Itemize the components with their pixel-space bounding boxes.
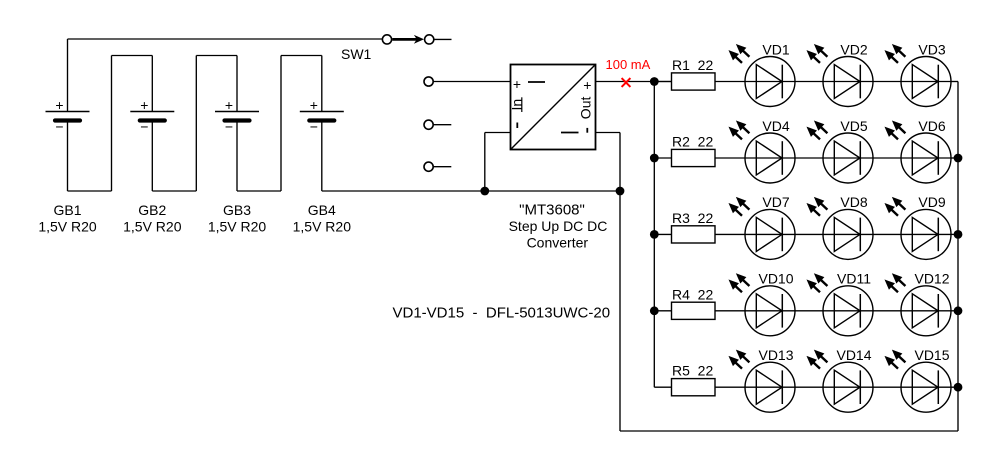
converter - Out internal stub xyxy=(561,132,579,134)
svg-text:GB4: GB4 xyxy=(308,202,336,218)
wire left bus to R4 xyxy=(654,310,671,312)
LED VD5 xyxy=(823,133,873,183)
svg-text:VD1: VD1 xyxy=(762,41,789,57)
LED VD9 xyxy=(901,209,951,259)
wire R5 to VD13 xyxy=(715,386,745,388)
resistor R3 xyxy=(672,226,716,243)
LED VD4 xyxy=(745,133,795,183)
svg-text:Step Up DC DC: Step Up DC DC xyxy=(509,218,608,234)
junction left bus row 4 xyxy=(650,306,659,315)
emission arrows VD11 xyxy=(807,274,827,292)
svg-text:R4 22: R4 22 xyxy=(672,286,713,302)
converter pin - In polarity mark xyxy=(516,123,518,129)
svg-text:SW1: SW1 xyxy=(341,46,372,62)
svg-text:1,5V R20: 1,5V R20 xyxy=(293,219,352,235)
svg-text:−: − xyxy=(140,119,148,135)
svg-text:VD8: VD8 xyxy=(840,194,867,210)
wire VD5 to VD6 xyxy=(873,157,901,159)
junction ground bus at return wire xyxy=(616,187,625,196)
terminal pin unused 2 xyxy=(424,162,451,171)
svg-text:"MT3608": "MT3608" xyxy=(519,201,585,218)
svg-text:R5 22: R5 22 xyxy=(672,363,713,379)
wire VD3 to right bus xyxy=(951,81,958,83)
LED VD3 xyxy=(901,57,951,107)
junction right bus row 4 xyxy=(954,306,963,315)
emission arrows VD1 xyxy=(729,45,749,63)
battery GB3 xyxy=(215,56,259,192)
switch SW1 xyxy=(382,35,433,44)
resistor R5 xyxy=(672,379,716,396)
svg-text:VD2: VD2 xyxy=(840,41,867,57)
junction left bus row 1 xyxy=(650,77,659,86)
wire terminal to converter + In xyxy=(433,81,510,83)
svg-text:VD12: VD12 xyxy=(914,271,949,287)
svg-text:VD9: VD9 xyxy=(918,194,945,210)
wire VD11 to VD12 xyxy=(873,310,901,312)
svg-text:VD4: VD4 xyxy=(762,118,789,134)
emission arrows VD13 xyxy=(729,351,749,369)
resistor R1 xyxy=(672,73,716,90)
svg-text:VD3: VD3 xyxy=(918,41,945,57)
wire LED matrix left bus xyxy=(653,82,655,388)
svg-text:GB3: GB3 xyxy=(223,202,251,218)
junction left bus row 2 xyxy=(650,154,659,163)
svg-text:VD7: VD7 xyxy=(762,194,789,210)
LED VD10 xyxy=(745,286,795,336)
junction left bus row 3 xyxy=(650,230,659,239)
svg-text:1,5V R20: 1,5V R20 xyxy=(123,219,182,235)
svg-text:+: + xyxy=(583,77,591,93)
svg-text:−: − xyxy=(310,119,318,135)
svg-text:R3 22: R3 22 xyxy=(672,210,713,226)
svg-text:Converter: Converter xyxy=(527,234,589,250)
emission arrows VD10 xyxy=(729,274,749,292)
svg-text:+: + xyxy=(225,97,233,113)
battery GB1 xyxy=(46,39,90,191)
converter + In internal stub xyxy=(528,81,545,83)
wire VD7 to VD8 xyxy=(795,233,823,235)
wire return bottom xyxy=(620,82,958,432)
LED VD2 xyxy=(823,57,873,107)
resistor R2 xyxy=(672,149,716,166)
battery GB2 xyxy=(130,56,174,192)
battery GB4 xyxy=(300,56,344,192)
converter pin - Out polarity mark xyxy=(586,128,588,133)
LED VD13 xyxy=(745,362,795,412)
wire R4 to VD10 xyxy=(715,310,745,312)
wire left bus to R3 xyxy=(654,233,671,235)
wire GB2 minus to GB3 plus xyxy=(152,56,237,192)
svg-text:+: + xyxy=(513,76,521,92)
wire GB1 plus to switch SW1 xyxy=(68,38,383,40)
svg-text:−: − xyxy=(225,119,233,135)
wire VD4 to VD5 xyxy=(795,157,823,159)
svg-text:+: + xyxy=(140,97,148,113)
wire VD8 to VD9 xyxy=(873,233,901,235)
current break mark X xyxy=(622,78,631,87)
wire left bus to R1 xyxy=(654,81,671,83)
wire left bus to R5 xyxy=(654,386,671,388)
converter module MT3608 box xyxy=(511,65,596,150)
wire battery minus bus xyxy=(322,190,620,192)
svg-text:VD11: VD11 xyxy=(837,271,871,287)
wire converter - Out to return xyxy=(596,133,621,192)
wire VD9 to right bus xyxy=(951,233,958,235)
wire from SW1 output xyxy=(433,38,451,40)
wire VD10 to VD11 xyxy=(795,310,823,312)
svg-text:VD13: VD13 xyxy=(758,347,793,363)
emission arrows VD4 xyxy=(729,121,749,139)
wire left bus to R2 xyxy=(654,157,671,159)
svg-text:1,5V R20: 1,5V R20 xyxy=(38,219,97,235)
svg-text:GB2: GB2 xyxy=(138,202,166,218)
wire converter + Out to LED matrix xyxy=(596,81,672,83)
emission arrows VD6 xyxy=(885,121,905,139)
emission arrows VD12 xyxy=(885,274,905,292)
emission arrows VD14 xyxy=(807,351,827,369)
svg-text:VD15: VD15 xyxy=(914,347,949,363)
wire VD12 to right bus xyxy=(951,310,958,312)
svg-text:R2 22: R2 22 xyxy=(672,134,713,150)
emission arrows VD15 xyxy=(885,351,905,369)
LED VD14 xyxy=(823,362,873,412)
svg-text:+: + xyxy=(310,97,318,113)
LED VD7 xyxy=(745,209,795,259)
converter diagonal divider xyxy=(511,65,594,148)
svg-text:Out: Out xyxy=(577,97,593,120)
emission arrows VD3 xyxy=(885,45,905,63)
junction right bus row 2 xyxy=(954,154,963,163)
svg-text:100 mA: 100 mA xyxy=(606,57,651,72)
wire R1 to VD1 xyxy=(715,81,745,83)
LED VD11 xyxy=(823,286,873,336)
junction ground bus at converter - In xyxy=(480,187,489,196)
emission arrows VD9 xyxy=(885,198,905,216)
wire VD14 to VD15 xyxy=(873,386,901,388)
LED VD12 xyxy=(901,286,951,336)
emission arrows VD2 xyxy=(807,45,827,63)
svg-text:VD5: VD5 xyxy=(840,118,867,134)
wire VD13 to VD14 xyxy=(795,386,823,388)
junction right bus row 5 xyxy=(954,383,963,392)
svg-text:R1 22: R1 22 xyxy=(672,57,713,73)
converter label In xyxy=(509,97,525,112)
wire GB1 minus to GB2 plus xyxy=(68,56,153,192)
svg-text:GB1: GB1 xyxy=(53,202,81,218)
wire VD2 to VD3 xyxy=(873,81,901,83)
wire R3 to VD7 xyxy=(715,233,745,235)
terminal pin to converter + In xyxy=(424,77,433,86)
LED VD1 xyxy=(745,57,795,107)
wire converter - In to ground bus xyxy=(485,133,511,192)
LED VD15 xyxy=(901,362,951,412)
svg-text:+: + xyxy=(55,97,63,113)
wire VD6 to right bus xyxy=(951,157,958,159)
junction right bus row 3 xyxy=(954,230,963,239)
LED VD8 xyxy=(823,209,873,259)
emission arrows VD7 xyxy=(729,198,749,216)
emission arrows VD8 xyxy=(807,198,827,216)
terminal pin unused 1 xyxy=(424,120,451,129)
svg-text:VD14: VD14 xyxy=(836,347,871,363)
wire R2 to VD4 xyxy=(715,157,745,159)
svg-text:VD10: VD10 xyxy=(758,271,793,287)
wire GB3 minus to GB4 plus xyxy=(237,56,322,192)
svg-text:VD6: VD6 xyxy=(918,118,945,134)
resistor R4 xyxy=(672,302,716,319)
wire VD1 to VD2 xyxy=(795,81,823,83)
LED VD6 xyxy=(901,133,951,183)
svg-text:1,5V R20: 1,5V R20 xyxy=(208,219,267,235)
wire VD15 to right bus xyxy=(951,386,958,388)
svg-text:−: − xyxy=(55,119,63,135)
svg-text:VD1-VD15 - DFL-5013UWC-20: VD1-VD15 - DFL-5013UWC-20 xyxy=(393,305,611,322)
emission arrows VD5 xyxy=(807,121,827,139)
